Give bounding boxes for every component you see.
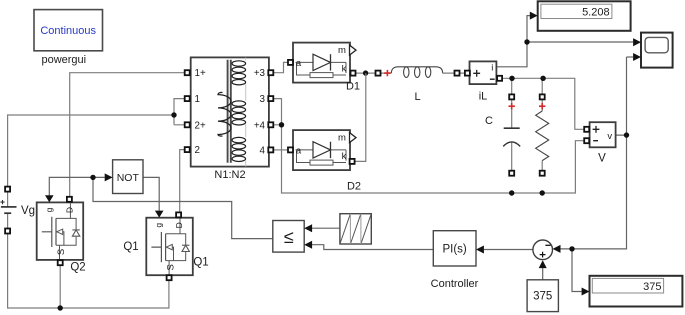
diode block D2 bbox=[288, 130, 361, 192]
wire: Vg - to ground bus to Q1/Q2 sources bbox=[8, 234, 169, 311]
svg-text:4: 4 bbox=[260, 145, 266, 156]
svg-text:N1:N2: N1:N2 bbox=[214, 169, 245, 181]
wire: primary center tap (ports 1,2+) to Vg + bbox=[8, 99, 185, 187]
svg-text:S: S bbox=[165, 264, 176, 270]
svg-text:C: C bbox=[485, 115, 493, 127]
svg-text:D: D bbox=[64, 207, 74, 213]
wire: transformer 1+ to Q2 drain bbox=[70, 73, 185, 197]
svg-text:1: 1 bbox=[195, 94, 200, 105]
svg-text:powergui: powergui bbox=[41, 54, 86, 66]
constant 375 bbox=[527, 280, 558, 312]
scope bbox=[633, 33, 673, 68]
PI controller bbox=[431, 231, 484, 290]
svg-text:1+: 1+ bbox=[195, 68, 206, 79]
svg-text:Q1: Q1 bbox=[123, 241, 138, 253]
transformer N1:N2 bbox=[185, 57, 274, 181]
current sensor iL bbox=[465, 61, 502, 102]
wire: iL - to C/R top bus and V + bbox=[502, 76, 584, 130]
mosfet Q2 bbox=[37, 195, 86, 273]
svg-text:V: V bbox=[598, 153, 606, 165]
mosfet Q1 bbox=[123, 211, 208, 281]
wire: sawtooth output to comparator input 1 bbox=[312, 227, 340, 229]
svg-text:k: k bbox=[342, 151, 347, 162]
wire: inductor to iL sensor bbox=[381, 72, 466, 74]
svg-text:g: g bbox=[154, 223, 164, 228]
svg-text:D2: D2 bbox=[347, 181, 361, 193]
sawtooth (repeating sequence) block bbox=[340, 214, 371, 244]
svg-text:a: a bbox=[296, 145, 302, 156]
svg-text:375: 375 bbox=[643, 281, 661, 293]
inductor L bbox=[376, 67, 460, 103]
svg-text:2+: 2+ bbox=[195, 120, 206, 131]
svg-text:i: i bbox=[491, 62, 493, 73]
wire: D1 cathode to inductor node bbox=[356, 70, 376, 75]
wire: constant 375 to sum input bbox=[542, 268, 544, 280]
svg-text:Q2: Q2 bbox=[70, 261, 85, 273]
capacitor C bbox=[485, 94, 520, 175]
wire: comparator output gate drive to NOT and Q2 gate bbox=[49, 175, 272, 239]
svg-text:a: a bbox=[296, 58, 302, 69]
wire: iL i measurement output to display and scope bbox=[496, 16, 633, 67]
svg-text:v: v bbox=[607, 131, 612, 142]
svg-text:+3: +3 bbox=[254, 68, 266, 79]
svg-text:Controller: Controller bbox=[431, 278, 479, 290]
wire: D2 cathode up to inductor node bbox=[355, 73, 366, 161]
svg-text:≤: ≤ bbox=[284, 227, 294, 247]
svg-text:g: g bbox=[44, 207, 54, 212]
dc voltage source Vg bbox=[0, 187, 35, 234]
wire: transformer 4 to D2 anode bbox=[273, 149, 288, 151]
display 5.208 bbox=[530, 1, 631, 31]
svg-text:NOT: NOT bbox=[117, 172, 140, 184]
wire: transformer port 2 to Q1 drain bbox=[180, 150, 185, 213]
diode block D1 bbox=[288, 43, 360, 93]
voltage sensor V bbox=[584, 122, 615, 164]
svg-text:Vg: Vg bbox=[21, 205, 35, 217]
svg-text:375: 375 bbox=[533, 291, 552, 303]
wire: NOT output to Q1 gate bbox=[143, 177, 159, 210]
svg-text:m: m bbox=[338, 45, 346, 56]
powergui block bbox=[34, 10, 103, 66]
svg-text:D: D bbox=[174, 222, 184, 228]
wire: transformer +3 to D1 anode bbox=[273, 62, 288, 72]
comparator (relational <=) bbox=[273, 221, 312, 253]
display 375 bbox=[582, 276, 683, 307]
NOT gate bbox=[105, 160, 143, 194]
wire: PI output to comparator input 2 bbox=[312, 245, 433, 250]
svg-text:D1: D1 bbox=[346, 81, 360, 93]
wire: sum output to PI input bbox=[484, 249, 533, 251]
svg-text:m: m bbox=[338, 133, 346, 144]
sum junction bbox=[533, 240, 561, 268]
svg-text:+4: +4 bbox=[254, 120, 266, 131]
svg-text:Continuous: Continuous bbox=[40, 25, 96, 37]
svg-text:2: 2 bbox=[195, 145, 200, 156]
wire: V v output to scope input 2 and feedback bbox=[560, 57, 633, 249]
svg-text:3: 3 bbox=[260, 94, 266, 105]
svg-text:S: S bbox=[56, 249, 67, 255]
svg-text:5.208: 5.208 bbox=[582, 6, 610, 18]
load resistor bbox=[536, 94, 549, 175]
svg-text:Q1: Q1 bbox=[193, 257, 208, 269]
wire: feedback branch to display 375 bbox=[569, 246, 581, 291]
wire: secondary center tap (3,+4) to output return bus bbox=[273, 99, 584, 196]
svg-text:L: L bbox=[414, 91, 420, 103]
svg-text:k: k bbox=[342, 64, 347, 75]
svg-text:PI(s): PI(s) bbox=[442, 244, 466, 256]
svg-text:iL: iL bbox=[479, 91, 488, 103]
